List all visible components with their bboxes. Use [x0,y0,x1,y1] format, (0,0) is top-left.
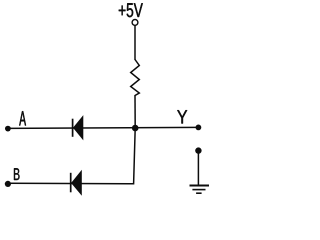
diode D1 triangle (input A) [74,116,83,139]
output label Y [177,110,187,123]
input label B [14,168,20,180]
wire: input B to corner below junction [8,128,135,184]
ground terminal dot [195,147,201,153]
diode D2 cathode bar (input B) [70,173,72,193]
resistor [131,60,140,96]
wire: ground lead [197,151,199,185]
input terminal B [5,181,11,187]
wire: supply terminal to resistor [134,25,136,60]
ground [190,186,210,194]
output terminal Y [196,125,202,131]
junction: output node [132,125,139,132]
supply label +5V [119,3,143,17]
diode D2 triangle (input B) [72,171,82,195]
diode D1 cathode bar (input A) [72,119,74,137]
wire: input A through diode D1 to output terminal Y [8,126,198,129]
input terminal A [5,126,11,132]
wire: resistor to output junction [134,95,136,128]
supply terminal circle [132,20,138,26]
input label A [19,111,26,125]
